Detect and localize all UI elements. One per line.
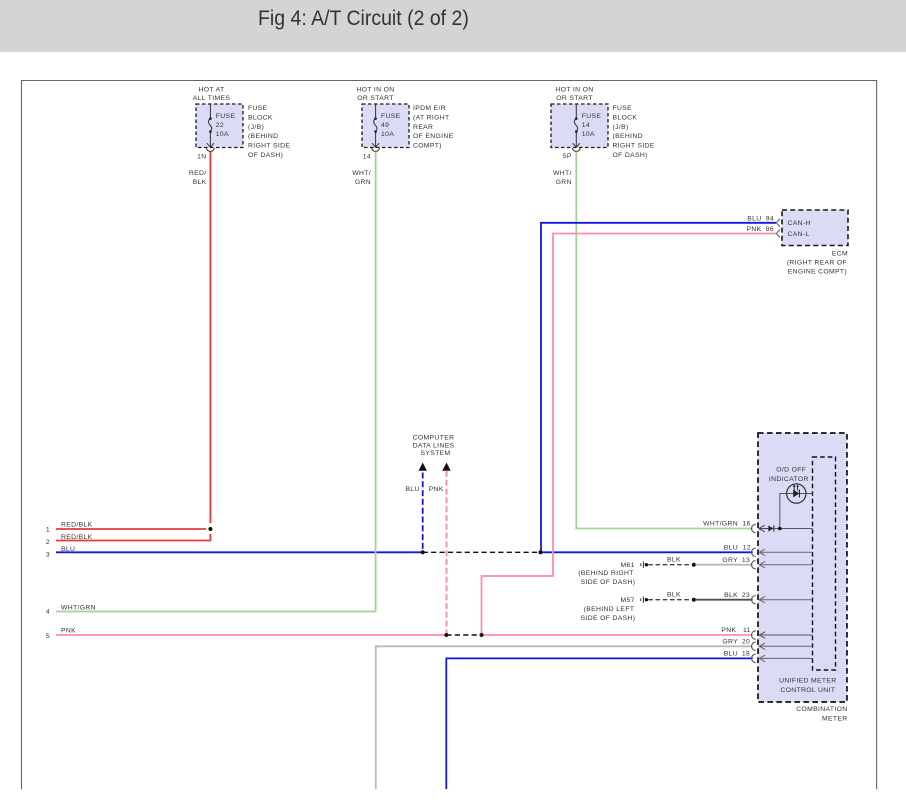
- svg-text:(BEHIND LEFT: (BEHIND LEFT: [584, 606, 635, 613]
- wire PNK to meter pin 11: [482, 634, 753, 636]
- svg-text:1N: 1N: [197, 154, 206, 161]
- svg-text:FUSE: FUSE: [381, 113, 401, 120]
- dashed PNK wire to data lines: [446, 471, 448, 635]
- svg-text:PNK: PNK: [61, 627, 76, 634]
- svg-text:(BEHIND: (BEHIND: [248, 133, 278, 140]
- svg-text:GRN: GRN: [556, 179, 572, 186]
- svg-text:SIDE OF DASH): SIDE OF DASH): [581, 615, 636, 622]
- svg-text:10A: 10A: [216, 131, 229, 138]
- arrow up PNK branch: [442, 463, 450, 471]
- svg-text:OR START: OR START: [556, 95, 593, 102]
- wire PNK CAN-L from ECM: [482, 234, 777, 636]
- node dot line3 left: [421, 550, 425, 554]
- svg-text:UNIFIED METER: UNIFIED METER: [779, 678, 836, 685]
- wire BLU pin 18: [446, 658, 752, 789]
- svg-text:SYSTEM: SYSTEM: [420, 450, 450, 457]
- svg-text:CONTROL UNIT: CONTROL UNIT: [780, 687, 835, 694]
- svg-text:OF DASH): OF DASH): [248, 152, 283, 159]
- svg-text:94: 94: [766, 215, 774, 222]
- pin 18 internal arrow: [759, 657, 812, 659]
- unified meter control unit inner box: [813, 457, 836, 670]
- svg-text:PNK: PNK: [746, 226, 761, 233]
- dashed BLK wire M57: [648, 599, 691, 601]
- pin 16 internal arrow and diode: [759, 528, 768, 530]
- svg-text:METER: METER: [822, 715, 848, 722]
- svg-text:INDICATOR: INDICATOR: [769, 476, 809, 483]
- svg-text:BLU: BLU: [747, 215, 761, 222]
- svg-text:RED/BLK: RED/BLK: [61, 521, 93, 528]
- svg-text:BLU: BLU: [724, 651, 738, 658]
- svg-text:2: 2: [46, 539, 50, 546]
- svg-text:REAR: REAR: [413, 124, 433, 131]
- wire 5 PNK horizontal left: [56, 634, 446, 636]
- svg-text:BLOCK: BLOCK: [613, 114, 638, 121]
- O/D OFF indicator LED lamp: [787, 484, 806, 503]
- node dot line5 right: [480, 633, 484, 637]
- wire WHT/GRN vertical from fuse F49: [375, 152, 377, 612]
- svg-text:(BEHIND RIGHT: (BEHIND RIGHT: [578, 570, 634, 577]
- fuse F49 connector cup: [372, 148, 380, 151]
- svg-text:FUSE: FUSE: [248, 105, 268, 112]
- dashed BLU wire to data lines: [422, 473, 424, 553]
- svg-text:CAN-L: CAN-L: [788, 231, 810, 238]
- fuse F49 symbol: [372, 104, 379, 147]
- svg-text:49: 49: [381, 122, 389, 129]
- svg-text:3: 3: [46, 551, 50, 558]
- svg-text:OR START: OR START: [357, 95, 394, 102]
- ECM connector CAN-L: [776, 230, 780, 238]
- fuse F22 header text: [193, 86, 231, 102]
- svg-text:5: 5: [46, 633, 50, 640]
- svg-text:HOT IN ON: HOT IN ON: [555, 86, 593, 93]
- svg-text:WHT/GRN: WHT/GRN: [61, 604, 96, 611]
- dashed black wire segment line5: [446, 634, 481, 636]
- node junction dot line1: [208, 527, 212, 531]
- svg-text:BLK: BLK: [667, 557, 681, 564]
- svg-text:GRY: GRY: [722, 639, 738, 646]
- svg-text:14: 14: [363, 154, 371, 161]
- svg-text:SIDE OF DASH): SIDE OF DASH): [581, 579, 636, 586]
- svg-text:GRN: GRN: [355, 179, 371, 186]
- svg-text:O/D OFF: O/D OFF: [776, 466, 806, 473]
- fuse F49 box: [362, 104, 409, 148]
- wire GRY to pin 13: [696, 564, 753, 566]
- fuse F14 symbol: [573, 104, 580, 147]
- svg-text:14: 14: [582, 122, 590, 129]
- pin 12 internal arrow: [759, 551, 812, 553]
- M61 connector symbol: [641, 562, 644, 568]
- svg-text:IPDM E/R: IPDM E/R: [413, 105, 446, 112]
- svg-text:COMBINATION: COMBINATION: [796, 706, 847, 713]
- svg-text:WHT/: WHT/: [553, 170, 572, 177]
- wire 4 WHT/GRN horizontal: [56, 611, 376, 613]
- fuse F14 connector cup: [572, 148, 580, 151]
- svg-text:18: 18: [742, 651, 750, 658]
- wire 1 RED/BLK horizontal: [56, 528, 206, 530]
- combination meter outer box: [758, 433, 847, 702]
- svg-text:BLK: BLK: [193, 179, 207, 186]
- meter connector arc pin 16: [752, 524, 756, 532]
- svg-text:ENGINE COMPT): ENGINE COMPT): [788, 269, 847, 276]
- svg-text:4: 4: [46, 609, 50, 616]
- pin 11 internal arrow: [759, 634, 812, 636]
- svg-text:20: 20: [742, 639, 750, 646]
- svg-text:PNK: PNK: [429, 486, 444, 493]
- svg-text:OF ENGINE: OF ENGINE: [413, 133, 454, 140]
- svg-text:13: 13: [742, 557, 750, 564]
- svg-text:BLK: BLK: [667, 592, 681, 599]
- svg-text:BLK: BLK: [724, 592, 738, 599]
- wire 2 RED/BLK horizontal: [56, 540, 211, 542]
- node dot pin16 branch: [778, 527, 782, 531]
- svg-text:1: 1: [46, 527, 50, 534]
- svg-text:BLOCK: BLOCK: [248, 114, 273, 121]
- svg-text:16: 16: [742, 521, 750, 528]
- svg-text:(J/B): (J/B): [613, 124, 629, 131]
- dashed black wire segment line3: [423, 551, 541, 553]
- arrow up BLU branch: [419, 463, 427, 471]
- meter connector arc pin 20: [752, 642, 756, 650]
- svg-text:10A: 10A: [582, 131, 595, 138]
- meter connector arc pin 12: [752, 548, 756, 556]
- pin 20 internal arrow: [759, 645, 812, 647]
- svg-text:DATA LINES: DATA LINES: [413, 442, 455, 449]
- svg-text:RED/: RED/: [189, 170, 207, 177]
- svg-text:OF DASH): OF DASH): [613, 152, 648, 159]
- node dot line5 left: [444, 633, 448, 637]
- meter connector arc pin 23: [752, 596, 756, 604]
- wire GRY pin 20: [376, 646, 753, 789]
- svg-text:PNK: PNK: [721, 627, 736, 634]
- svg-text:CAN-H: CAN-H: [788, 220, 811, 227]
- ECM connector CAN-H: [776, 219, 780, 227]
- lamp branch wire: [780, 494, 787, 529]
- wire BLK to pin 23: [696, 599, 753, 601]
- svg-text:FUSE: FUSE: [582, 113, 602, 120]
- svg-text:FUSE: FUSE: [613, 105, 633, 112]
- svg-text:WHT/: WHT/: [352, 170, 371, 177]
- svg-text:ALL TIMES: ALL TIMES: [193, 95, 231, 102]
- svg-text:GRY: GRY: [722, 557, 738, 564]
- wire BLU CAN-H from ECM: [541, 223, 776, 553]
- svg-text:COMPUTER: COMPUTER: [413, 435, 455, 442]
- svg-text:BLU: BLU: [61, 546, 75, 553]
- ECM box: [782, 210, 848, 246]
- pin 13 internal arrow: [759, 564, 812, 566]
- meter connector arc pin 11: [752, 631, 756, 639]
- svg-text:23: 23: [742, 592, 750, 599]
- meter connector arc pin 13: [752, 561, 756, 569]
- svg-text:M57: M57: [621, 597, 635, 604]
- pin 23 internal arrow: [759, 599, 812, 601]
- svg-text:WHT/GRN: WHT/GRN: [703, 521, 738, 528]
- svg-text:ECM: ECM: [832, 251, 848, 258]
- svg-text:(AT RIGHT: (AT RIGHT: [413, 114, 450, 121]
- svg-text:(RIGHT REAR OF: (RIGHT REAR OF: [787, 260, 847, 267]
- computer data lines text: [413, 435, 455, 457]
- svg-text:RIGHT SIDE: RIGHT SIDE: [613, 143, 655, 150]
- svg-text:(BEHIND: (BEHIND: [613, 133, 643, 140]
- svg-text:M61: M61: [621, 562, 635, 569]
- svg-text:BLU: BLU: [724, 545, 738, 552]
- svg-text:86: 86: [766, 226, 774, 233]
- svg-text:RIGHT SIDE: RIGHT SIDE: [248, 143, 290, 150]
- node dot BLK23: [692, 598, 696, 602]
- fuse F14 box: [551, 104, 608, 148]
- svg-text:12: 12: [743, 545, 751, 552]
- svg-text:HOT AT: HOT AT: [198, 86, 224, 93]
- svg-text:COMPT): COMPT): [413, 143, 442, 150]
- svg-text:BLU: BLU: [405, 486, 419, 493]
- title bar: [0, 0, 906, 52]
- svg-text:HOT IN ON: HOT IN ON: [356, 86, 394, 93]
- wire 3 BLU horizontal: [56, 551, 423, 553]
- meter connector arc pin 18: [752, 654, 756, 662]
- svg-text:(J/B): (J/B): [248, 124, 264, 131]
- svg-text:22: 22: [216, 122, 224, 129]
- M57 connector symbol: [641, 597, 644, 603]
- fuse F14 header text: [555, 86, 593, 102]
- svg-text:11: 11: [743, 627, 751, 634]
- dashed BLK wire M61: [648, 564, 691, 566]
- svg-text:RED/BLK: RED/BLK: [61, 534, 93, 541]
- svg-text:10A: 10A: [381, 131, 394, 138]
- svg-text:5P: 5P: [563, 153, 572, 160]
- fuse F22 connector cup: [207, 148, 215, 151]
- wire WHT/GRN vertical from fuse F14: [576, 152, 752, 529]
- svg-text:FUSE: FUSE: [216, 113, 236, 120]
- node dot GRY13: [692, 563, 696, 567]
- fuse F49 header text: [356, 86, 394, 102]
- fuse F22 box: [196, 104, 243, 148]
- fuse F22 symbol: [207, 104, 214, 147]
- wire RED/BLK vertical from fuse F22: [209, 152, 211, 524]
- wire RED/BLK vertical lower segment: [209, 534, 211, 541]
- node dot line3 right: [539, 550, 543, 554]
